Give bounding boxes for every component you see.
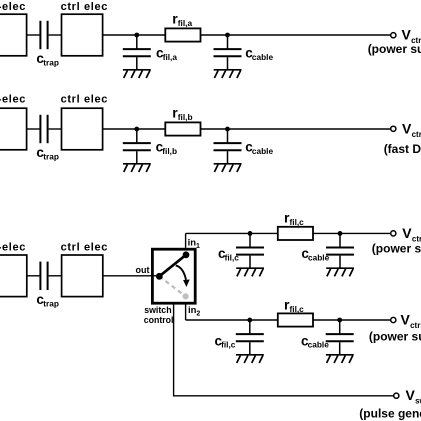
svg-text:(power supply): (power supply) — [368, 42, 421, 56]
svg-text:trap: trap — [43, 58, 59, 68]
svg-text:V: V — [401, 312, 411, 328]
svg-text:2: 2 — [196, 311, 200, 318]
svg-text:sw: sw — [415, 397, 421, 406]
svg-text:(power supply): (power supply) — [369, 329, 421, 343]
svg-text:fil,a: fil,a — [178, 18, 193, 28]
svg-text:fil,a: fil,a — [163, 52, 178, 62]
svg-text:in: in — [188, 238, 197, 249]
svg-text:fil,c: fil,c — [290, 304, 305, 314]
svg-text:trap: trap — [43, 152, 59, 162]
svg-text:trap: trap — [43, 298, 59, 308]
svg-text:V: V — [402, 225, 412, 241]
svg-text:control: control — [144, 315, 174, 325]
svg-text:(pulse generator): (pulse generator) — [359, 407, 421, 421]
svg-text:V: V — [402, 27, 412, 43]
svg-text:ctrl elec: ctrl elec — [61, 242, 108, 254]
svg-text:switch: switch — [144, 305, 171, 315]
svg-text:(power supply): (power supply) — [372, 241, 421, 255]
svg-text:-elec: -elec — [0, 93, 26, 105]
svg-text:ctrl elec: ctrl elec — [61, 1, 108, 13]
svg-text:cable: cable — [308, 340, 330, 350]
svg-text:ctrl: ctrl — [412, 130, 421, 139]
svg-text:cable: cable — [308, 252, 330, 262]
svg-text:fil,c: fil,c — [290, 217, 305, 227]
svg-text:in: in — [188, 305, 197, 316]
svg-text:V: V — [406, 387, 416, 403]
svg-text:-elec: -elec — [0, 1, 26, 13]
svg-text:out: out — [136, 265, 150, 275]
svg-text:fil,b: fil,b — [162, 146, 177, 156]
svg-text:(fast DAC): (fast DAC) — [384, 142, 421, 156]
svg-text:fil,b: fil,b — [178, 112, 193, 122]
svg-text:-elec: -elec — [0, 242, 26, 254]
svg-text:fil,c: fil,c — [225, 252, 240, 262]
svg-text:fil,c: fil,c — [221, 340, 236, 350]
svg-text:cable: cable — [252, 146, 274, 156]
svg-text:V: V — [402, 120, 412, 136]
svg-text:ctrl elec: ctrl elec — [61, 93, 108, 105]
svg-text:1: 1 — [196, 243, 200, 250]
svg-text:cable: cable — [252, 52, 274, 62]
